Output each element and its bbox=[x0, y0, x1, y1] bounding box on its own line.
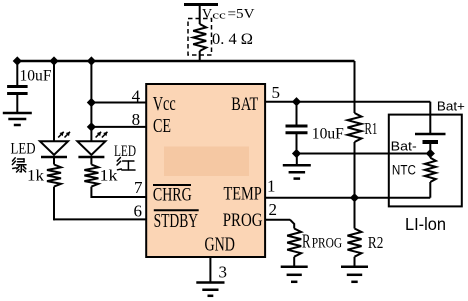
svg-text:R1: R1 bbox=[365, 119, 378, 138]
svg-text:1k: 1k bbox=[100, 168, 118, 185]
svg-text:R: R bbox=[302, 231, 311, 253]
svg-text:0. 4 Ω: 0. 4 Ω bbox=[212, 31, 253, 48]
svg-text:3: 3 bbox=[219, 262, 228, 281]
svg-text:V: V bbox=[202, 7, 212, 22]
svg-text:LI-lon: LI-lon bbox=[405, 214, 446, 234]
svg-text:1k: 1k bbox=[27, 168, 44, 185]
svg-text:Vcc: Vcc bbox=[153, 93, 176, 115]
svg-text:NTC: NTC bbox=[392, 163, 416, 178]
svg-text:Bat+: Bat+ bbox=[437, 100, 465, 114]
svg-text:6: 6 bbox=[134, 202, 143, 221]
svg-text:STDBY: STDBY bbox=[154, 210, 199, 232]
svg-text:7: 7 bbox=[134, 178, 143, 197]
svg-text:GND: GND bbox=[205, 234, 235, 255]
svg-text:BAT: BAT bbox=[231, 94, 258, 115]
svg-text:4: 4 bbox=[132, 87, 141, 106]
svg-text:CE: CE bbox=[153, 115, 171, 137]
svg-text:R2: R2 bbox=[368, 233, 384, 252]
svg-text:LED: LED bbox=[11, 141, 36, 158]
svg-text:LED: LED bbox=[114, 143, 136, 160]
svg-text:Bat-: Bat- bbox=[391, 140, 417, 154]
svg-text:CHRG: CHRG bbox=[153, 185, 192, 206]
svg-text:2: 2 bbox=[269, 200, 278, 219]
svg-text:PROG: PROG bbox=[312, 236, 343, 252]
svg-text:10uF: 10uF bbox=[20, 68, 52, 85]
svg-text:TEMP: TEMP bbox=[224, 184, 262, 205]
svg-text:cc: cc bbox=[212, 10, 226, 22]
svg-text:PROG: PROG bbox=[223, 210, 263, 231]
svg-text:=5V: =5V bbox=[228, 7, 255, 22]
svg-text:5: 5 bbox=[272, 83, 281, 102]
svg-text:1: 1 bbox=[267, 177, 276, 196]
svg-text:10uF: 10uF bbox=[312, 126, 344, 143]
svg-text:8: 8 bbox=[132, 110, 141, 129]
